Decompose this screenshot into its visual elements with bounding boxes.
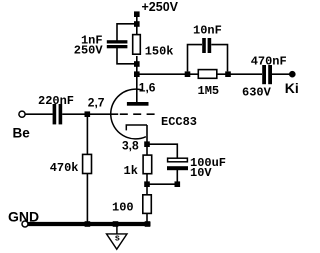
wire: grid node down to 470k bbox=[86, 116, 88, 155]
svg-text:100: 100 bbox=[112, 200, 134, 214]
junction: anode node (to coupling network) bbox=[134, 71, 140, 77]
power terminal +250V bbox=[134, 11, 140, 17]
svg-text:150k: 150k bbox=[145, 44, 174, 58]
wire: 470nF right plate to output terminal bbox=[272, 73, 290, 75]
wire: cathode lead down bbox=[146, 125, 148, 144]
wire: +250V terminal to top junction bbox=[136, 16, 138, 22]
wire: 220nF to grid node and tube bbox=[62, 113, 118, 115]
svg-text:630V: 630V bbox=[242, 86, 272, 100]
ground terminal GND (open circle) bbox=[22, 221, 28, 227]
junction: 470k at ground rail bbox=[85, 221, 91, 227]
cathode of U1 bbox=[126, 125, 147, 130]
junction: cathode node 3,8 bbox=[144, 141, 150, 147]
wire: input terminal to 220nF bbox=[25, 113, 53, 115]
capacitor C1 1nF/250V top plate bbox=[107, 40, 128, 43]
output terminal Ki (filled dot) bbox=[289, 71, 296, 78]
capacitor C4 220nF left plate bbox=[53, 104, 57, 124]
svg-text:3,8: 3,8 bbox=[122, 138, 139, 152]
wire: 150k bottom to anode plate bbox=[136, 56, 138, 103]
wire: junction down to 150k top bbox=[136, 26, 138, 35]
svg-text:220nF: 220nF bbox=[38, 94, 74, 108]
wire: cathode node right to 100uF bbox=[147, 144, 177, 158]
resistor R3 470k body bbox=[83, 154, 92, 173]
resistor R1 150k body bbox=[133, 35, 141, 55]
input terminal Be (open circle) bbox=[19, 111, 25, 117]
svg-text:470nF: 470nF bbox=[251, 55, 287, 69]
ground bus wire bbox=[28, 222, 151, 226]
capacitor C2 10nF right plate bbox=[208, 38, 212, 53]
junction: grid node 2,7 bbox=[85, 111, 91, 117]
wire: anode node to 470nF left plate bbox=[137, 73, 262, 75]
svg-text:ECC83: ECC83 bbox=[161, 115, 197, 129]
svg-text:10nF: 10nF bbox=[193, 23, 222, 37]
signal ground symbol (triangle) bbox=[107, 234, 128, 249]
svg-text:Be: Be bbox=[13, 125, 31, 140]
svg-text:+250V: +250V bbox=[142, 0, 179, 14]
resistor R4 1k body bbox=[143, 155, 152, 174]
wire: rail down to signal ground symbol bbox=[116, 226, 118, 234]
wire: 100 bottom to ground rail bbox=[146, 214, 148, 223]
resistor R5 100 body bbox=[143, 195, 152, 214]
svg-text:470k: 470k bbox=[50, 161, 79, 175]
resistor R2 1M5 body bbox=[198, 70, 217, 79]
svg-text:s: s bbox=[115, 234, 120, 244]
wire: 100uF bottom down and left to 1k bottom node bbox=[149, 170, 177, 184]
capacitor C5 100uF positive plate (outlined) bbox=[168, 158, 188, 162]
junction: top of 150k and 1nF bbox=[134, 21, 140, 27]
wire: 10nF left leg bbox=[188, 45, 203, 72]
wire: 10nF right leg bbox=[211, 45, 227, 72]
junction: right of 1M5 bbox=[225, 71, 231, 77]
junction: 1nF rejoin node bbox=[134, 61, 140, 67]
svg-text:250V: 250V bbox=[74, 44, 104, 58]
wire: 1nF bottom branch (down and right) bbox=[117, 48, 137, 64]
grid of U1 (dashed line) bbox=[120, 113, 155, 115]
svg-text:1,6: 1,6 bbox=[139, 80, 156, 94]
capacitor C5 100uF negative plate (solid) bbox=[167, 166, 188, 170]
capacitor C1 1nF/250V bottom plate bbox=[107, 45, 128, 48]
anode plate of U1 bbox=[127, 102, 149, 106]
svg-text:Ki: Ki bbox=[285, 80, 299, 96]
capacitor C2 10nF left plate bbox=[202, 38, 206, 53]
svg-text:10V: 10V bbox=[190, 166, 212, 180]
tube U1 ECC83 envelope (open right arc) bbox=[111, 89, 146, 139]
wire: 1k bottom to 100 top bbox=[146, 174, 148, 195]
capacitor C3 470nF left plate bbox=[262, 65, 266, 84]
svg-text:2,7: 2,7 bbox=[88, 96, 105, 110]
junction: ground symbol tap bbox=[113, 221, 119, 227]
svg-text:1M5: 1M5 bbox=[198, 84, 220, 98]
wire: 470k down to ground rail bbox=[86, 174, 88, 223]
junction: 1k bottom / 100uF return node bbox=[144, 181, 150, 187]
capacitor C4 220nF right plate bbox=[59, 104, 63, 124]
capacitor C3 470nF right plate bbox=[268, 65, 272, 84]
junction: below 100uF bbox=[175, 181, 181, 187]
svg-text:1k: 1k bbox=[124, 164, 138, 178]
junction: 100 at ground rail bbox=[145, 221, 151, 227]
wire: 1nF top branch (left and down) bbox=[117, 24, 137, 41]
junction: left of 1M5 bbox=[185, 71, 191, 77]
wire: cathode node down to 1k bbox=[146, 146, 148, 155]
